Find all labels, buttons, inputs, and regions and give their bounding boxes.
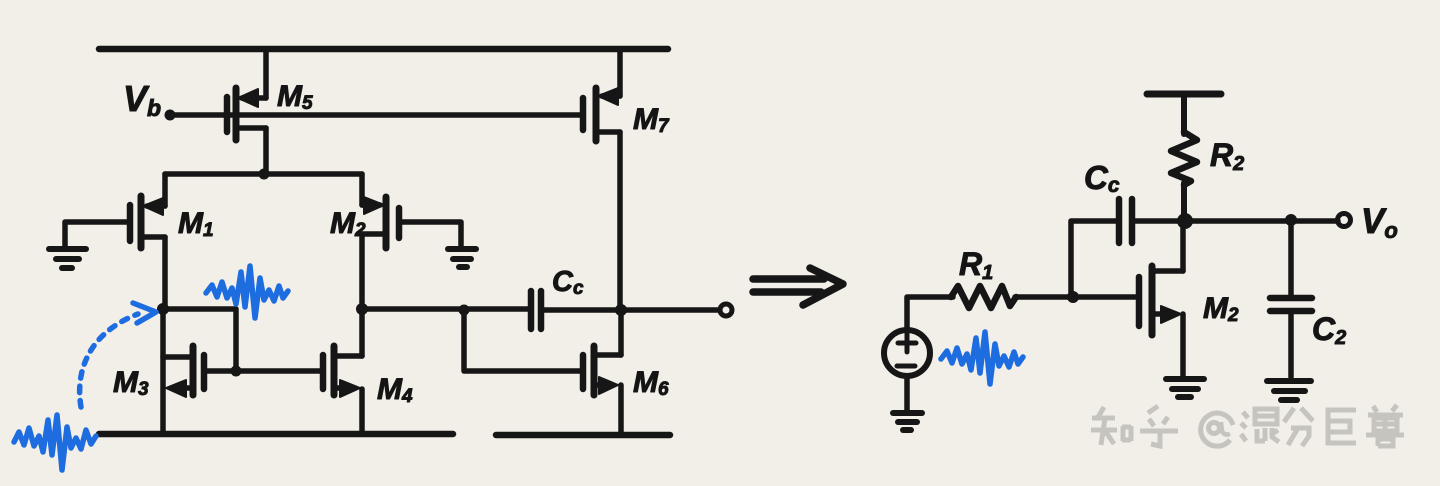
node junction to M6 gate — [459, 305, 470, 316]
VSS bottom rail left wire — [99, 431, 453, 438]
noise squiggle at node A — [206, 266, 288, 318]
兽 — [1373, 405, 1397, 412]
@ — [1201, 413, 1233, 446]
wire to M6 gate — [464, 310, 581, 371]
wire node A to mirror gates — [163, 309, 236, 371]
wire M1 source down to node A — [162, 237, 168, 309]
wire M1 drain to tail — [162, 174, 168, 206]
ground at M2 gate — [448, 249, 476, 267]
blue annotations — [14, 266, 1023, 470]
node output junction — [615, 304, 627, 316]
transistor M2 (right) — [1139, 266, 1183, 335]
ground at M1 gate — [49, 249, 86, 268]
wire M1 gate to ground — [65, 222, 130, 246]
implication arrow — [753, 268, 843, 305]
wire M4 source to bottom rail — [359, 389, 365, 434]
noise squiggle bottom left — [14, 415, 96, 470]
transistor M2 — [362, 197, 399, 248]
wire Cc to Vo row — [1132, 218, 1338, 224]
知 — [1097, 407, 1104, 419]
noise squiggle at source — [941, 332, 1023, 384]
wire node B to Cc — [362, 306, 529, 312]
transistor M5 — [227, 88, 266, 140]
node R2/M2 drain junction — [1177, 213, 1193, 229]
wire M6 source to bottom rail — [618, 385, 624, 435]
capacitor C2 — [1270, 298, 1312, 311]
VSS bottom rail right wire — [496, 432, 670, 439]
wire C2 to ground — [1288, 311, 1294, 377]
ground below C2 — [1267, 381, 1311, 400]
node output terminal — [720, 304, 732, 316]
node input junction — [1067, 291, 1079, 303]
node tail junction — [259, 169, 270, 180]
transistor M3 — [163, 346, 204, 397]
VDD top rail wire — [99, 46, 668, 53]
wire source to ground — [904, 376, 910, 411]
node Vb terminal dot — [165, 110, 176, 121]
wire M5 source down to tail node — [263, 128, 269, 174]
source Vin circle — [884, 330, 930, 376]
乎 — [1148, 406, 1158, 413]
wire Cc to output — [541, 307, 719, 313]
wire Vb bias line to M5 and M7 gates — [170, 112, 581, 118]
transistor M7 — [583, 88, 620, 141]
wire M2 drain to node — [1180, 221, 1186, 271]
wire M2 source to ground — [1180, 314, 1186, 376]
混 — [1241, 412, 1248, 441]
wire Cc left branch down to input — [1071, 221, 1119, 297]
node A (first stage output) — [157, 303, 169, 315]
分 — [1284, 408, 1313, 422]
capacitor Cc — [531, 291, 541, 329]
巨 — [1328, 410, 1356, 443]
ground below M2 right — [1166, 379, 1204, 397]
wire Vo node down to C2 — [1288, 220, 1294, 296]
wire M7 drain to rail — [617, 49, 623, 96]
transistor M4 — [323, 346, 362, 397]
wire source to R1 — [907, 297, 953, 330]
node C2 junction — [1285, 214, 1297, 226]
node Vo terminal — [1338, 214, 1351, 227]
wire R2 to node — [1181, 183, 1187, 221]
capacitor Cc (right) — [1119, 199, 1132, 243]
node junction gate line — [231, 366, 242, 377]
node B (second stage input) — [356, 303, 368, 315]
wire R1 to M2 gate — [1015, 294, 1136, 300]
wire M2 drain to tail — [359, 174, 365, 205]
wire M7 source down to output row — [617, 132, 623, 310]
wire tail node horizontal — [165, 171, 362, 177]
wire M2 gate to ground — [399, 222, 461, 246]
wire M3/M4 gate line — [205, 368, 322, 374]
VDD supply bar — [1147, 91, 1221, 98]
transistor M6 — [583, 346, 621, 395]
dashed feedback arrow — [80, 314, 138, 407]
watermark 知乎 @混分巨兽 — [1091, 405, 1404, 446]
wire supply to R2 — [1181, 94, 1187, 134]
wire M4 drain to node B — [359, 309, 365, 356]
wire node A down through M3 to bottom rail — [160, 309, 166, 434]
wire M2 source down to node B — [359, 234, 365, 309]
ground below source — [893, 413, 922, 430]
wire M5 drain to rail — [263, 49, 269, 98]
transistor M1 — [130, 196, 165, 248]
wire M6 drain up to output row — [618, 310, 624, 355]
resistor R1 — [951, 286, 1016, 308]
resistor R2 — [1171, 132, 1197, 185]
